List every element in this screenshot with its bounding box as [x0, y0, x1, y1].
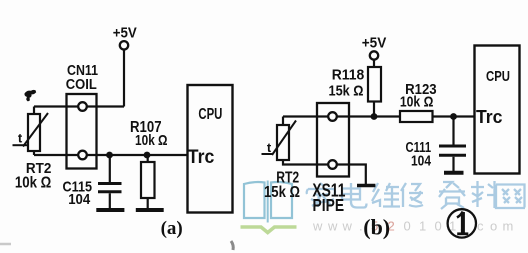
CN11 pin 2 circle	[78, 151, 87, 160]
ground bar C115	[96, 208, 124, 212]
svg-text:t: t	[18, 131, 23, 146]
resistor R107 body	[141, 162, 155, 198]
XS11 pin 1 circle	[328, 112, 337, 121]
resistor R123 body	[400, 111, 433, 122]
svg-text:(a): (a)	[161, 218, 183, 239]
ground bar C111	[444, 171, 464, 175]
svg-text:Trc: Trc	[188, 147, 215, 168]
capacitor C111 leads	[452, 117, 454, 172]
svg-text:+5V: +5V	[362, 35, 387, 52]
svg-text:104: 104	[68, 191, 91, 208]
circled figure number 1 digit	[457, 212, 463, 218]
svg-text:Trc: Trc	[476, 106, 503, 127]
svg-text:15k Ω: 15k Ω	[264, 184, 300, 201]
thermistor RT2 (b) diagonal	[272, 121, 296, 156]
svg-text:CPU: CPU	[198, 106, 222, 123]
watermark hanzi 电	[342, 183, 367, 208]
watermark book logo	[244, 181, 292, 223]
watermark hanzi 家	[307, 183, 335, 207]
resistor R118 bottom lead	[373, 102, 375, 117]
watermark hanzi 资	[439, 182, 465, 209]
CN11 pin 1 circle	[78, 102, 87, 111]
CPU box (b)	[475, 46, 520, 174]
svg-text:+5V: +5V	[113, 25, 137, 42]
svg-text:15k Ω: 15k Ω	[329, 83, 364, 100]
watermark hanzi 修	[401, 183, 423, 207]
capacitor C115 plates	[98, 184, 122, 192]
stray speck bottom left	[0, 243, 11, 246]
svg-text:R118: R118	[332, 66, 365, 83]
svg-text:PIPE: PIPE	[313, 195, 345, 215]
watermark green swoosh	[241, 227, 297, 233]
wire +5V down to CN11 top row (a)	[123, 50, 125, 107]
stray blotch below left CPU	[231, 241, 233, 250]
wire RT2 top lead (b)	[282, 117, 284, 126]
thermistor RT2 (a) body	[28, 114, 40, 151]
wire RT2 bottom to ground (b)	[283, 160, 366, 184]
+5V terminal circle (a)	[120, 41, 128, 49]
wire RT2 top lead (a)	[33, 107, 35, 115]
thermistor RT2 (b) foot	[262, 153, 273, 155]
wire top row RT2 to +5V drop (a)	[34, 105, 124, 107]
resistor R118 body	[368, 67, 381, 102]
svg-text:104: 104	[411, 153, 432, 170]
capacitor C115 leads	[109, 155, 111, 209]
junction node C115 tap (a)	[106, 152, 113, 159]
svg-text:CPU: CPU	[486, 69, 510, 85]
wire RT2 bottom lead (a)	[33, 151, 35, 155]
watermark hanzi 料	[471, 181, 495, 208]
watermark hanzi 网	[496, 185, 525, 209]
resistor R118 top lead	[373, 60, 375, 67]
capacitor C111 plates	[439, 146, 466, 155]
svg-text:10k Ω: 10k Ω	[15, 175, 52, 192]
svg-text:(b): (b)	[363, 214, 390, 239]
fault smudge arrow	[24, 90, 36, 101]
thermistor RT2 (b) body	[277, 125, 289, 160]
svg-text:10k Ω: 10k Ω	[135, 132, 168, 149]
XS11 pin 2 circle	[328, 160, 337, 169]
svg-text:COIL: COIL	[66, 77, 97, 93]
ground bar XS11 return (b)	[357, 184, 375, 188]
svg-text:t: t	[267, 140, 272, 155]
wire bottom row to CPU (a)	[34, 154, 188, 156]
svg-text:10k Ω: 10k Ω	[400, 94, 434, 111]
thermistor RT2 (a) diagonal	[23, 113, 48, 147]
circled figure number 1 ring	[448, 209, 476, 237]
watermark hanzi 维	[372, 183, 400, 207]
connector XS11 box	[317, 103, 349, 177]
resistor R107 leads	[147, 155, 149, 209]
CPU box (a)	[188, 85, 233, 213]
junction node R118 tap (b)	[371, 113, 378, 120]
wire main node row (b)	[283, 115, 475, 117]
junction node C111 tap (b)	[450, 113, 457, 120]
ground bar R107	[136, 208, 164, 212]
+5V terminal circle (b)	[370, 51, 378, 59]
thermistor RT2 (a) foot	[13, 144, 28, 146]
svg-text:www.520101.com: www.520101.com	[312, 219, 513, 234]
junction node R107 tap (a)	[144, 152, 151, 159]
connector CN11 box	[67, 94, 97, 169]
